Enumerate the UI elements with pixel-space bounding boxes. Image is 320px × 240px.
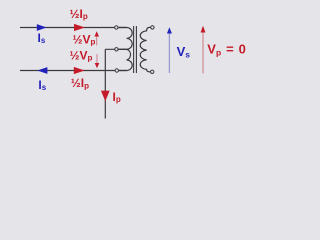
wire center-tap stub bbox=[105, 48, 126, 50]
terminal bottom-left bbox=[115, 69, 118, 72]
current arrow Is (blue, pointing left, bottom wire) bbox=[37, 67, 47, 74]
wire bottom primary lead bbox=[20, 70, 127, 72]
voltage arrow ½Vp upper (small red, pointing up) bbox=[96, 35, 98, 46]
voltage arrow Vp (red, pointing up) bbox=[202, 31, 204, 74]
wire center-tap vertical drop bbox=[104, 49, 106, 118]
wire top primary lead bbox=[20, 27, 127, 29]
terminal bottom-right bbox=[151, 70, 154, 73]
current arrow Ip (red, pointing down) bbox=[101, 91, 110, 102]
current arrow Is (blue, pointing right) bbox=[37, 24, 47, 31]
current arrow ½Ip (red, pointing right, bottom wire) bbox=[74, 67, 85, 74]
voltage arrow ½Vp lower (small red, pointing down) bbox=[96, 54, 98, 64]
transformer primary lower half winding bbox=[118, 49, 132, 70]
terminal center-tap bbox=[115, 48, 118, 51]
voltage arrow Vs (blue, pointing up) bbox=[168, 32, 170, 73]
transformer secondary winding bbox=[140, 27, 151, 71]
terminal top-right bbox=[151, 26, 154, 29]
svg-text:Vp = 0: Vp = 0 bbox=[207, 42, 246, 58]
transformer core bbox=[134, 26, 137, 73]
terminal top-left bbox=[115, 26, 118, 29]
transformer primary upper half winding bbox=[118, 28, 132, 50]
current arrow ½Ip (red, pointing right, top wire) bbox=[74, 24, 85, 31]
